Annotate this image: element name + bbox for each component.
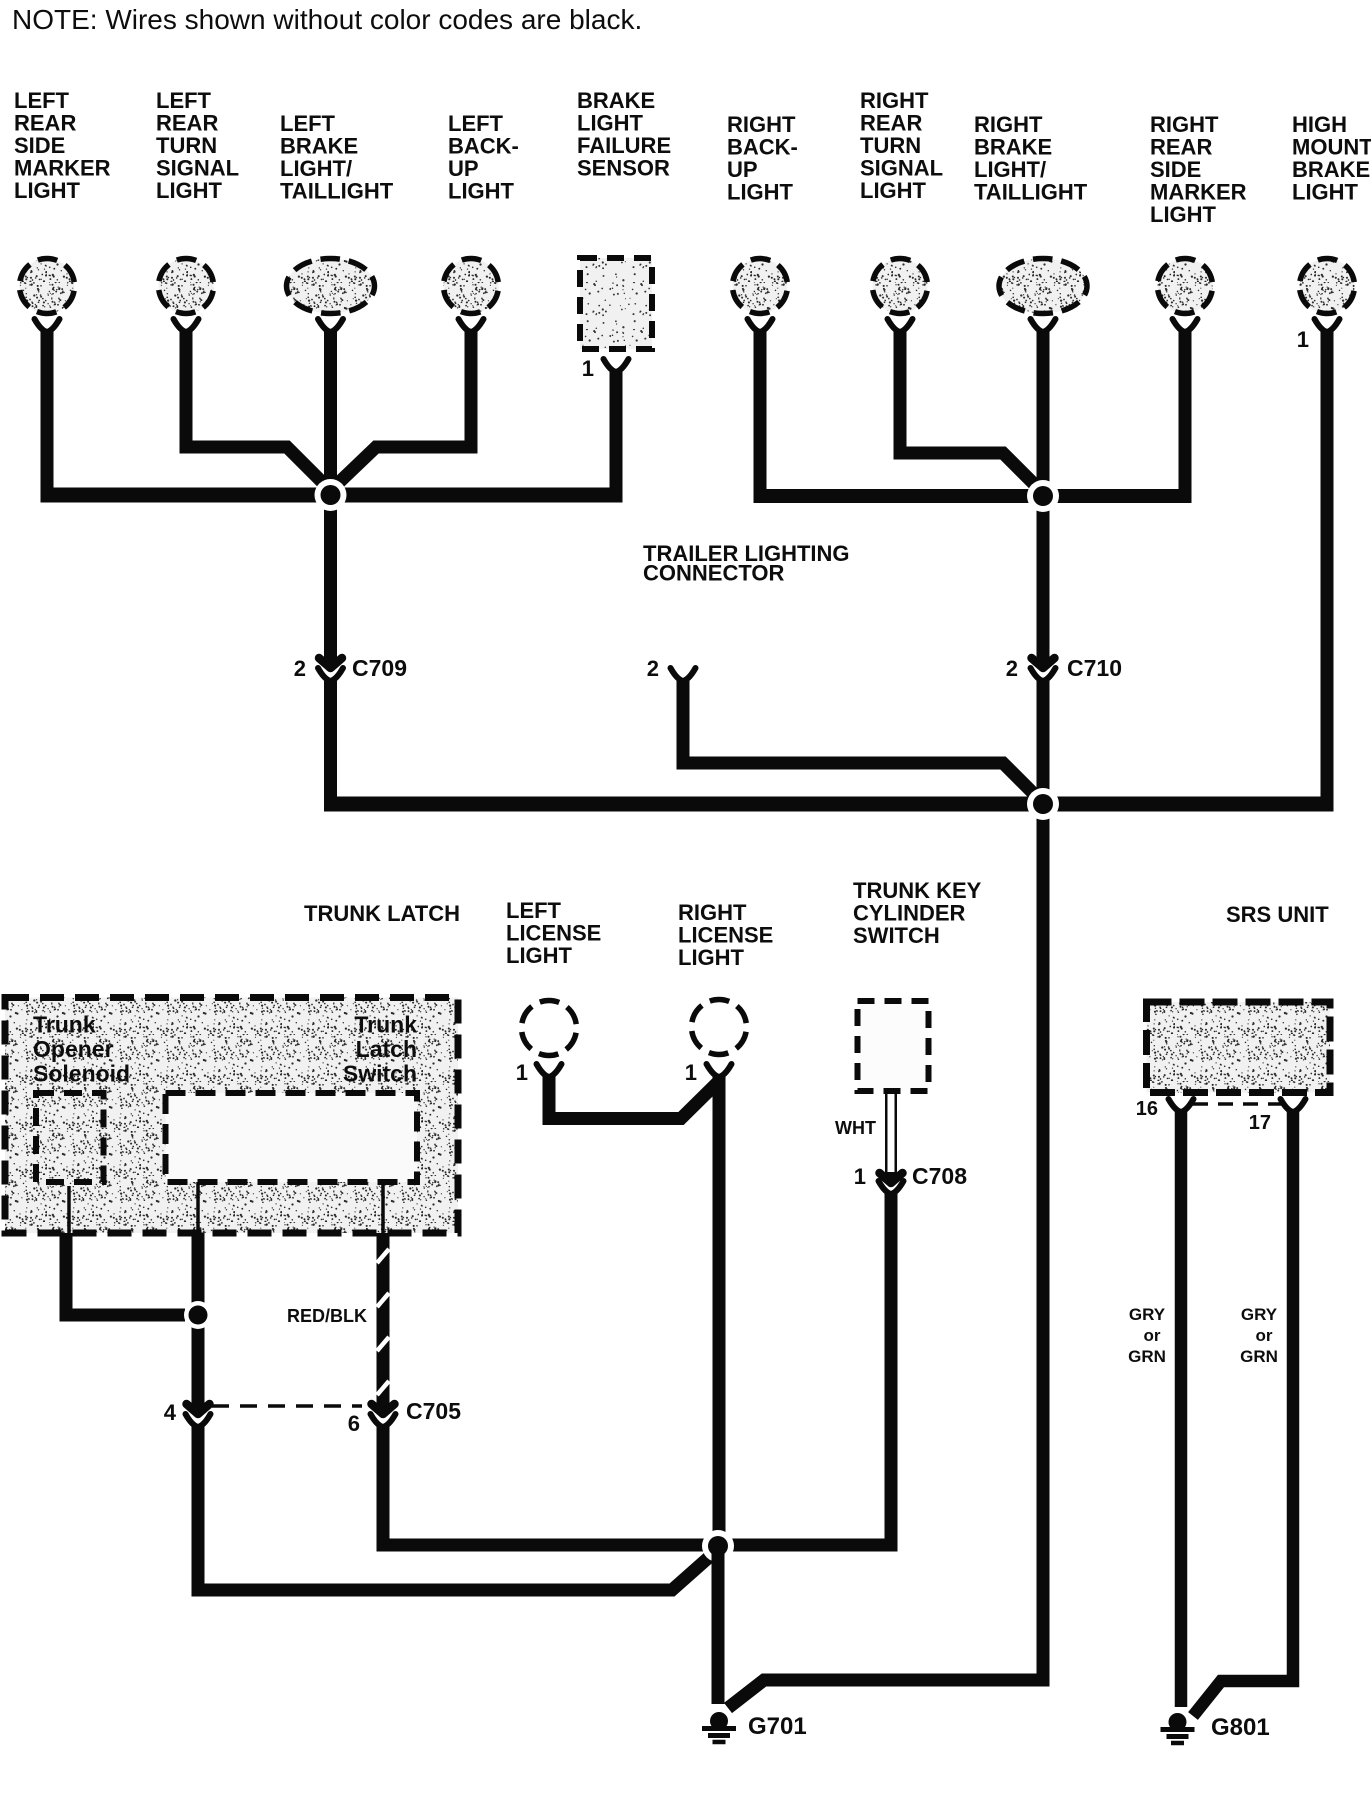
svg-text:2: 2 xyxy=(294,656,306,681)
svg-text:SRS UNIT: SRS UNIT xyxy=(1226,902,1329,927)
svg-text:C710: C710 xyxy=(1067,655,1122,681)
wire: high mount brake light long drop xyxy=(1321,329,1334,812)
svg-text:1: 1 xyxy=(582,356,594,381)
svg-text:SENSOR: SENSOR xyxy=(577,155,670,180)
wire: pin 16 down to G801 xyxy=(1175,1110,1188,1707)
wire: pin4 down, right, diagonal to G701 junction xyxy=(198,1425,716,1590)
label: right brake light/taillight xyxy=(974,112,1088,205)
svg-text:LEFT: LEFT xyxy=(448,111,504,136)
lamp: right rear side marker light xyxy=(1158,259,1213,333)
wire: C708 down, left to junction xyxy=(723,1192,891,1545)
svg-text:TAILLIGHT: TAILLIGHT xyxy=(280,178,394,203)
svg-text:1: 1 xyxy=(1297,327,1309,352)
svg-text:GRY: GRY xyxy=(1129,1305,1166,1324)
connector C710 xyxy=(1031,658,1056,681)
lamp: high mount brake light xyxy=(1300,259,1355,333)
wire: left license to right license xyxy=(549,1075,719,1119)
svg-text:Trunk: Trunk xyxy=(354,1012,417,1038)
svg-text:LIGHT: LIGHT xyxy=(1292,179,1359,204)
connector: trailer lighting connector pin 2 xyxy=(671,668,696,681)
label: right back-up light xyxy=(727,112,798,205)
svg-text:BRAKE: BRAKE xyxy=(577,88,655,113)
svg-text:REAR: REAR xyxy=(156,110,218,135)
svg-text:SWITCH: SWITCH xyxy=(853,923,940,948)
svg-text:GRY: GRY xyxy=(1241,1305,1278,1324)
svg-text:LIGHT: LIGHT xyxy=(860,178,927,203)
svg-text:CYLINDER: CYLINDER xyxy=(853,900,966,925)
wire: latch switch down through junction to pin 4 xyxy=(192,1233,205,1411)
svg-text:LIGHT: LIGHT xyxy=(506,943,573,968)
lamp: left rear side marker light xyxy=(20,259,75,333)
label: brake light failure sensor xyxy=(577,88,671,181)
svg-text:BRAKE: BRAKE xyxy=(1292,157,1370,182)
trunk latch outer box xyxy=(5,998,458,1234)
label GRY or GRN (pin 16 wire) xyxy=(1128,1305,1166,1366)
svg-text:GRN: GRN xyxy=(1240,1347,1278,1366)
svg-text:REAR: REAR xyxy=(860,110,922,135)
svg-text:BACK-: BACK- xyxy=(727,134,798,159)
svg-text:BRAKE: BRAKE xyxy=(280,133,358,158)
svg-text:G801: G801 xyxy=(1211,1714,1270,1741)
svg-text:CONNECTOR: CONNECTOR xyxy=(643,560,784,585)
svg-text:RIGHT: RIGHT xyxy=(974,112,1043,137)
svg-text:MARKER: MARKER xyxy=(14,155,111,180)
svg-text:LEFT: LEFT xyxy=(280,111,336,136)
wire: right license down to junction xyxy=(713,1075,726,1546)
svg-text:REAR: REAR xyxy=(1150,134,1212,159)
trunk latch switch box xyxy=(166,1093,418,1182)
label: left back-up light xyxy=(448,111,519,204)
svg-text:REAR: REAR xyxy=(14,110,76,135)
svg-text:Solenoid: Solenoid xyxy=(33,1061,130,1087)
svg-text:Opener: Opener xyxy=(33,1036,114,1062)
lamp: left rear turn signal light xyxy=(159,259,214,333)
svg-text:RIGHT: RIGHT xyxy=(860,88,929,113)
label: left license light xyxy=(506,898,601,968)
svg-text:C708: C708 xyxy=(912,1163,967,1189)
svg-text:Latch: Latch xyxy=(356,1036,417,1062)
svg-text:TURN: TURN xyxy=(156,133,217,158)
label: right license light xyxy=(678,900,773,970)
junction: right lamp bus node xyxy=(1027,480,1059,512)
svg-text:RIGHT: RIGHT xyxy=(1150,112,1219,137)
wire: WHT wire (white with black outline) xyxy=(885,1094,897,1180)
svg-text:RED/BLK: RED/BLK xyxy=(287,1306,367,1326)
trunk opener solenoid box xyxy=(36,1093,104,1182)
lamp: right brake light/taillight xyxy=(999,259,1087,333)
connector pin 16 xyxy=(1169,1099,1194,1112)
svg-text:C705: C705 xyxy=(406,1398,461,1424)
svg-text:LEFT: LEFT xyxy=(14,88,70,113)
junction: G701 collector node xyxy=(702,1530,734,1562)
label: left brake light/taillight xyxy=(280,111,394,204)
lamp: left back-up light xyxy=(444,259,499,333)
svg-text:RIGHT: RIGHT xyxy=(727,112,796,137)
svg-text:UP: UP xyxy=(448,156,479,181)
svg-text:LIGHT: LIGHT xyxy=(678,945,745,970)
label: trunk key cylinder switch xyxy=(853,878,982,948)
label: left rear side marker light xyxy=(14,88,111,203)
svg-text:SIGNAL: SIGNAL xyxy=(156,155,239,180)
connector C708 (pin 1) xyxy=(879,1173,904,1194)
wire: C705 down, right to junction xyxy=(383,1425,718,1545)
svg-text:LIGHT: LIGHT xyxy=(577,110,644,135)
svg-text:16: 16 xyxy=(1136,1098,1158,1120)
junction: lower bus node xyxy=(1027,788,1059,820)
junction: solenoid/latch node xyxy=(184,1301,212,1329)
lamp: left license light xyxy=(522,1001,577,1078)
label: right rear side marker light xyxy=(1150,112,1247,227)
lamp: right rear turn signal light xyxy=(873,259,928,333)
svg-text:Switch: Switch xyxy=(343,1061,417,1087)
lamp: right license light xyxy=(692,1000,747,1078)
svg-text:G701: G701 xyxy=(748,1713,807,1740)
wire: junction down to C709 xyxy=(324,495,337,664)
label: trunk latch switch xyxy=(343,1012,417,1087)
svg-text:MARKER: MARKER xyxy=(1150,179,1247,204)
svg-text:LEFT: LEFT xyxy=(156,88,212,113)
label: high mount brake light xyxy=(1292,112,1371,205)
wire: junction down to ground G701 xyxy=(712,1546,725,1704)
connector pin 4 xyxy=(186,1404,211,1427)
wire: latch switch pin 2 (thin) xyxy=(381,1182,385,1233)
ground G801 xyxy=(1161,1713,1195,1743)
svg-text:FAILURE: FAILURE xyxy=(577,133,671,158)
dashed connector link pin16-pin17 xyxy=(1193,1102,1281,1106)
label: trailer lighting connector xyxy=(643,541,850,586)
svg-text:1: 1 xyxy=(516,1060,528,1085)
svg-text:SIDE: SIDE xyxy=(1150,157,1201,182)
svg-text:LIGHT: LIGHT xyxy=(14,178,81,203)
wire: solenoid pin (thin) xyxy=(67,1186,71,1233)
trunk key cylinder switch box xyxy=(858,1001,929,1091)
junction: left lamp bus node xyxy=(315,479,347,511)
svg-text:UP: UP xyxy=(727,157,758,182)
wire: pin 17 down, left, diagonal to G801 xyxy=(1193,1110,1293,1716)
label: right rear turn signal light xyxy=(860,88,943,203)
wire: right rear turn signal to junction xyxy=(900,329,1044,494)
svg-text:BACK-: BACK- xyxy=(448,133,519,158)
label: trunk opener solenoid xyxy=(33,1012,130,1087)
wire: C709 down to lower bus xyxy=(324,679,337,804)
srs unit box xyxy=(1147,1002,1331,1093)
wire: C710 down through bus junction, long drop, to G701 xyxy=(728,679,1043,1708)
svg-text:or: or xyxy=(1144,1326,1161,1345)
svg-text:LIGHT/: LIGHT/ xyxy=(280,156,352,181)
lamp: right back-up light xyxy=(733,259,788,333)
ground G701 xyxy=(702,1712,736,1742)
svg-text:BRAKE: BRAKE xyxy=(974,134,1052,159)
wire: latch switch pin 1 (thin) xyxy=(196,1182,200,1233)
wire: right back-up down + right bus + side marker drop xyxy=(754,329,767,490)
wire: left brake/taillight down to junction xyxy=(324,329,337,495)
svg-text:SIGNAL: SIGNAL xyxy=(860,155,943,180)
wire: left rear turn signal to junction xyxy=(186,329,332,492)
svg-text:NOTE: Wires shown without colo: NOTE: Wires shown without color codes ar… xyxy=(12,4,642,35)
svg-text:GRN: GRN xyxy=(1128,1347,1166,1366)
wire: trailer connector drop to lower bus xyxy=(683,679,1043,803)
svg-text:LIGHT/: LIGHT/ xyxy=(974,157,1046,182)
svg-text:Trunk: Trunk xyxy=(33,1012,96,1038)
svg-text:6: 6 xyxy=(348,1411,360,1436)
svg-text:4: 4 xyxy=(164,1400,177,1425)
wire: left side marker down + left bus + sensor drop xyxy=(41,329,54,488)
connector C709 xyxy=(318,658,343,681)
svg-text:LEFT: LEFT xyxy=(506,898,562,923)
svg-text:WHT: WHT xyxy=(835,1118,876,1138)
connector C705 (pin 6) xyxy=(371,1404,396,1427)
svg-text:or: or xyxy=(1256,1326,1273,1345)
wire: left back-up light to junction xyxy=(329,329,471,492)
svg-text:TAILLIGHT: TAILLIGHT xyxy=(974,179,1088,204)
svg-text:TURN: TURN xyxy=(860,133,921,158)
wire: solenoid down to junction xyxy=(66,1233,185,1315)
svg-text:1: 1 xyxy=(854,1164,866,1189)
svg-text:2: 2 xyxy=(647,656,659,681)
svg-text:1: 1 xyxy=(685,1060,697,1085)
svg-text:2: 2 xyxy=(1006,656,1018,681)
svg-text:RIGHT: RIGHT xyxy=(678,900,747,925)
label GRY or GRN (pin 17 wire) xyxy=(1240,1305,1278,1366)
svg-text:LICENSE: LICENSE xyxy=(678,922,773,947)
svg-text:TRUNK LATCH: TRUNK LATCH xyxy=(304,901,460,926)
brake light failure sensor box xyxy=(580,258,652,372)
svg-text:TRUNK KEY: TRUNK KEY xyxy=(853,878,982,903)
svg-text:LIGHT: LIGHT xyxy=(1150,202,1217,227)
connector pin 17 xyxy=(1281,1099,1306,1112)
svg-text:LIGHT: LIGHT xyxy=(156,178,223,203)
svg-text:LIGHT: LIGHT xyxy=(448,178,515,203)
label: left rear turn signal light xyxy=(156,88,239,203)
svg-text:MOUNT: MOUNT xyxy=(1292,134,1371,159)
svg-text:17: 17 xyxy=(1249,1112,1271,1134)
svg-text:C709: C709 xyxy=(352,655,407,681)
svg-text:HIGH: HIGH xyxy=(1292,112,1347,137)
dashed connector link pin4-pin6 xyxy=(212,1404,362,1408)
svg-text:LIGHT: LIGHT xyxy=(727,179,794,204)
wire: lower long bus xyxy=(324,797,1327,812)
svg-text:LICENSE: LICENSE xyxy=(506,920,601,945)
svg-text:SIDE: SIDE xyxy=(14,133,65,158)
wire: red/blk striped wire down to C705 xyxy=(377,1233,390,1411)
wire: right brake/taillight down through junction to C710 xyxy=(1037,329,1050,664)
lamp: left brake light/taillight xyxy=(287,259,375,333)
